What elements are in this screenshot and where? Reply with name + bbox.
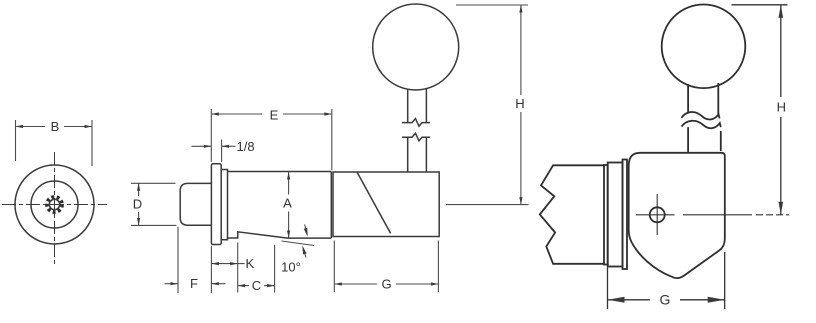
front view bezel circle	[31, 181, 78, 228]
stem lower segment with break	[402, 133, 430, 172]
svg-text:H: H	[515, 96, 524, 111]
svg-text:K: K	[246, 256, 255, 271]
svg-text:A: A	[283, 196, 292, 211]
dimension H right	[732, 5, 788, 215]
flange	[211, 164, 221, 245]
svg-text:C: C	[252, 278, 261, 293]
svg-text:H: H	[777, 100, 786, 115]
dimension G right	[608, 252, 725, 309]
dimension F	[165, 227, 226, 293]
svg-text:E: E	[270, 108, 279, 123]
dimension B	[16, 119, 93, 166]
stem upper segment right view	[688, 83, 718, 115]
svg-text:G: G	[660, 292, 671, 308]
hole crosshair vertical	[656, 194, 658, 235]
stem upper segment with break	[402, 89, 430, 127]
svg-text:F: F	[190, 276, 198, 291]
washer	[604, 165, 608, 265]
dimension A	[283, 172, 292, 238]
dimension K	[211, 243, 254, 293]
dimension C	[238, 245, 275, 293]
ball knob	[373, 4, 459, 90]
dimension 1/8	[192, 139, 255, 162]
star washer ring	[47, 197, 62, 212]
mounting hole	[650, 207, 665, 222]
svg-text:G: G	[381, 277, 391, 292]
centerline horizontal	[2, 204, 107, 206]
lever body	[629, 153, 725, 278]
shaft outline with chamfer notch	[228, 172, 332, 239]
dimension E	[211, 108, 331, 171]
bushing ring 3	[623, 160, 628, 270]
front view outer circle	[15, 165, 94, 244]
dimension G middle	[334, 241, 438, 293]
plunger tip outline	[180, 183, 211, 225]
centerline vertical	[54, 152, 56, 267]
stem break wave upper	[682, 112, 720, 119]
hole centerline to H extension	[636, 214, 789, 216]
svg-text:1/8: 1/8	[237, 139, 255, 154]
dimension D	[131, 183, 177, 225]
collar step	[221, 170, 227, 240]
housing	[333, 172, 439, 237]
svg-text:D: D	[133, 197, 142, 212]
stem lower segment right view	[688, 127, 721, 153]
panel block with break edge	[540, 165, 604, 263]
angle dimension 10 deg	[281, 225, 314, 275]
svg-text:10°: 10°	[281, 260, 301, 275]
housing diagonal line	[357, 172, 390, 233]
ball right view	[662, 5, 746, 89]
dimension H middle	[446, 5, 529, 205]
bushing ring 2	[608, 163, 623, 267]
stem break wave lower	[682, 121, 721, 128]
svg-text:B: B	[51, 119, 60, 134]
